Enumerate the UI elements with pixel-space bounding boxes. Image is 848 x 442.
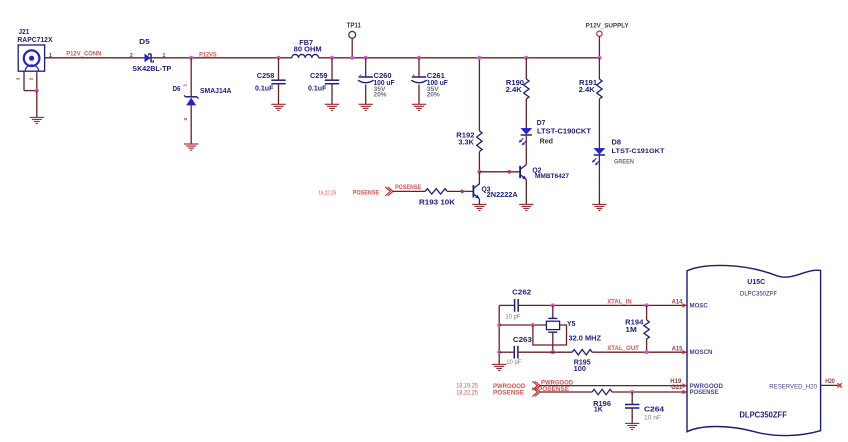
svg-text:POSENSE: POSENSE: [538, 386, 569, 393]
svg-text:2.4K: 2.4K: [506, 85, 523, 94]
svg-text:1M: 1M: [625, 325, 636, 334]
junction crystal case: [531, 323, 535, 327]
junction C264: [630, 390, 634, 394]
svg-text:A14: A14: [672, 298, 683, 305]
ground C261: [412, 104, 426, 110]
off-page connector POSENSE2: [532, 388, 540, 397]
svg-text:MOSCN: MOSCN: [690, 349, 713, 356]
svg-text:C263: C263: [513, 335, 532, 344]
transistor Q2: [519, 166, 521, 178]
svg-text:16,22,25: 16,22,25: [318, 190, 336, 196]
wire gnd rail left: [498, 305, 500, 364]
junction C260: [364, 56, 368, 60]
wire R191 to D8: [598, 99, 600, 148]
wire to D6: [190, 58, 192, 96]
junction C258: [276, 56, 280, 60]
junction crystal top: [551, 303, 555, 307]
arrow pin A14: [682, 303, 687, 308]
svg-text:80 OHM: 80 OHM: [294, 44, 322, 53]
wire J21 to ground: [36, 91, 38, 118]
svg-text:20%: 20%: [374, 92, 387, 99]
svg-text:20%: 20%: [427, 92, 440, 99]
svg-text:2: 2: [130, 53, 133, 59]
ground C258: [271, 104, 285, 110]
off-page connector POSENSE: [385, 187, 393, 196]
svg-text:+: +: [359, 74, 362, 80]
off-page refs PWRGOOD POSENSE: [456, 383, 526, 396]
wire C260 to ground: [365, 85, 367, 105]
junction R192 top: [477, 56, 481, 60]
wire C263 left: [499, 351, 514, 353]
svg-text:P12V_CONN: P12V_CONN: [66, 51, 102, 58]
resistor R195: [572, 350, 592, 355]
arrow Q2 base: [508, 170, 513, 175]
R190 label: [506, 78, 524, 94]
wire P12V_SUPPLY to rail: [598, 36, 600, 57]
wire J21 pin3 stub: [23, 71, 25, 90]
svg-text:XTAL_IN: XTAL_IN: [607, 299, 632, 306]
junction R194 top: [645, 303, 649, 307]
svg-text:C261: C261: [427, 73, 445, 80]
wire C264 to ground: [631, 408, 633, 423]
svg-text:MOSC: MOSC: [690, 303, 709, 310]
junction C261: [417, 56, 421, 60]
wire XTAL_OUT left: [518, 351, 572, 353]
capacitor C263: [513, 346, 515, 359]
C259 label: [308, 71, 328, 92]
Q2 label: [532, 165, 569, 180]
svg-text:TP11: TP11: [347, 20, 361, 29]
svg-text:0.1uF: 0.1uF: [255, 83, 274, 92]
svg-text:Red: Red: [540, 139, 553, 146]
wire to C261: [418, 58, 420, 77]
R194 label: [625, 318, 644, 334]
svg-text:C264: C264: [644, 404, 665, 413]
wire C261 to ground: [418, 85, 420, 105]
wire XTAL_IN: [518, 304, 687, 306]
wire PWRGOOD: [540, 385, 687, 387]
wire J21 pin2 stub: [36, 71, 38, 90]
ground D6: [184, 144, 198, 150]
junction P12VS: [189, 56, 193, 60]
FB7 label: [294, 38, 322, 54]
svg-text:1: 1: [183, 84, 188, 87]
wire to C260: [365, 58, 367, 77]
R195 label: [574, 358, 591, 373]
svg-text:Y5: Y5: [567, 319, 576, 328]
junction gnd rail lower: [497, 350, 501, 354]
svg-text:POSENSE: POSENSE: [493, 389, 524, 396]
svg-text:D5: D5: [139, 37, 150, 46]
C263 label: [506, 335, 532, 366]
svg-text:1K: 1K: [594, 404, 603, 413]
wire Q3 emitter to ground: [478, 199, 480, 205]
wire C258 to ground: [278, 84, 280, 105]
arrow pin G21: [682, 390, 687, 395]
wire crystal case left: [499, 324, 546, 326]
resistor R191: [597, 79, 602, 99]
svg-text:C259: C259: [310, 71, 328, 80]
U15C label: [740, 277, 777, 297]
svg-text:POSENSE: POSENSE: [395, 184, 421, 191]
ground D8: [592, 204, 606, 210]
svg-text:SMAJ14A: SMAJ14A: [200, 86, 232, 95]
C261 label: [427, 73, 449, 98]
D6 label: [173, 84, 233, 95]
svg-text:18,19,25: 18,19,25: [456, 384, 478, 390]
resistor R192: [477, 131, 482, 152]
D5 label: [132, 37, 171, 73]
svg-text:2: 2: [183, 118, 188, 121]
svg-text:3.3K: 3.3K: [458, 137, 474, 146]
svg-text:C258: C258: [257, 71, 275, 80]
wire P12V_CONN: [45, 57, 145, 59]
led D7: [521, 128, 531, 134]
off-page connector PWRGOOD: [532, 381, 540, 390]
Y5 label: [567, 319, 602, 343]
crystal Y5: [546, 318, 559, 332]
wire R194 top: [646, 305, 648, 320]
wire D6 to ground: [190, 105, 192, 144]
arrow Q3 base: [461, 189, 466, 194]
wire Q2 emitter to ground: [525, 180, 527, 205]
svg-text:U15C: U15C: [747, 277, 765, 286]
svg-text:LTST-C191GKT: LTST-C191GKT: [612, 148, 665, 155]
off-page refs POSENSE: [318, 189, 379, 196]
junction Q3 collector: [477, 170, 481, 174]
ground crystal: [492, 364, 506, 370]
R191 label: [579, 78, 598, 94]
wire to C259: [331, 58, 333, 80]
ground J21: [30, 117, 44, 123]
wire J21 pins join: [24, 90, 37, 92]
wire to R190: [525, 58, 527, 79]
svg-text:SK42BL-TP: SK42BL-TP: [132, 64, 171, 73]
svg-text:10 nF: 10 nF: [644, 414, 661, 421]
wire R190 to D7: [525, 99, 527, 128]
arrow pin H19: [682, 383, 687, 388]
D8 label: [612, 138, 665, 166]
svg-text:18,22,25: 18,22,25: [456, 390, 478, 396]
wire C259 to ground: [331, 84, 333, 105]
wire XTAL_OUT right: [592, 351, 687, 353]
C258 label: [255, 71, 274, 92]
R192 label: [456, 131, 474, 147]
junction gnd rail upper: [497, 323, 501, 327]
resistor R193: [425, 189, 447, 194]
junction C259: [330, 56, 334, 60]
svg-text:100: 100: [574, 364, 586, 373]
wire crystal bottom stub: [552, 332, 554, 352]
D7 label: [537, 118, 592, 146]
svg-text:0.1uF: 0.1uF: [308, 83, 327, 92]
wire pin H20 stub: [821, 384, 838, 386]
C260 label: [374, 73, 396, 98]
ground C260: [359, 104, 373, 110]
wire R196 to pin G21: [612, 391, 687, 393]
svg-text:2: 2: [29, 77, 34, 80]
svg-text:G21: G21: [671, 384, 683, 391]
junction R194 bottom: [645, 350, 649, 354]
svg-text:10 pF: 10 pF: [505, 314, 520, 321]
svg-text:R193 10K: R193 10K: [419, 197, 456, 206]
capacitor C261: [412, 76, 426, 78]
ferrite bead FB7: [292, 54, 319, 57]
capacitor C264: [625, 404, 639, 406]
capacitor C258: [271, 79, 285, 81]
wire junction down to Q3: [478, 172, 480, 185]
wire D8 to ground: [598, 155, 600, 204]
wire FB7 to corner: [319, 57, 600, 59]
power terminal P12V_SUPPLY: [597, 31, 602, 36]
ground C259: [325, 104, 339, 110]
junction P12V_SUPPLY: [597, 56, 601, 60]
diode D5: [145, 54, 154, 63]
resistor R190: [524, 79, 529, 99]
wire D5 to FB7: [151, 57, 291, 59]
ground C264: [625, 423, 639, 429]
wire rail to R191: [598, 58, 600, 79]
svg-text:C262: C262: [512, 288, 531, 297]
arrow pin A15: [682, 350, 687, 355]
wire to C258: [278, 58, 280, 80]
capacitor C262: [514, 299, 516, 312]
wire POSENSE to R196: [540, 391, 592, 393]
ground Q3: [472, 204, 486, 210]
transistor Q3: [472, 185, 474, 197]
svg-text:32.0 MHZ: 32.0 MHZ: [569, 334, 602, 343]
op-amp U15C outline: [687, 265, 821, 435]
Q3 label: [482, 185, 518, 200]
C264 label: [644, 404, 665, 421]
svg-text:P12V_SUPPLY: P12V_SUPPLY: [586, 22, 630, 29]
svg-text:POSENSE: POSENSE: [690, 389, 720, 396]
wire POSENSE to R193: [393, 190, 425, 192]
svg-text:A15: A15: [672, 346, 683, 353]
junction R190 top: [524, 56, 528, 60]
R196 label: [593, 399, 611, 414]
J21 label: [17, 27, 52, 44]
svg-text:P12VS: P12VS: [199, 52, 217, 59]
svg-text:XTAL_OUT: XTAL_OUT: [607, 345, 639, 352]
junction TP11: [350, 56, 354, 60]
wire R193 to Q3 base: [447, 190, 473, 192]
tvs diode D6: [184, 95, 198, 105]
svg-text:3: 3: [15, 77, 20, 80]
wire to C264: [631, 392, 633, 405]
svg-text:D7: D7: [537, 118, 546, 127]
svg-text:+: +: [412, 74, 415, 80]
svg-text:2.4K: 2.4K: [579, 85, 596, 94]
capacitor C260: [359, 76, 373, 78]
svg-text:LTST-C190CKT: LTST-C190CKT: [537, 129, 592, 136]
connector J21: [18, 45, 44, 71]
no-connect X H20: [838, 383, 842, 387]
wire crystal top stub: [552, 305, 554, 318]
svg-text:H20: H20: [825, 378, 835, 385]
led D8: [594, 148, 604, 154]
wire junction to Q2 base: [479, 171, 519, 173]
ground Q2: [519, 204, 533, 210]
test point TP11: [349, 31, 356, 38]
svg-text:C260: C260: [374, 73, 392, 80]
svg-text:RESERVED_H20: RESERVED_H20: [769, 383, 817, 390]
wire crystal case loop: [533, 325, 567, 345]
junction J21 pins: [35, 89, 39, 93]
resistor R196: [592, 389, 612, 394]
svg-text:D8: D8: [612, 138, 622, 147]
svg-text:DLPC350ZFF: DLPC350ZFF: [739, 410, 787, 419]
junction crystal bottom: [551, 350, 555, 354]
wire R194 bottom: [646, 339, 648, 352]
C262 label: [505, 288, 531, 321]
svg-text:D6: D6: [173, 84, 181, 93]
svg-text:10 pF: 10 pF: [506, 359, 521, 366]
wire R192 to junction: [478, 152, 480, 172]
wire D7 to Q2 collector: [525, 135, 527, 164]
svg-text:GREEN: GREEN: [614, 159, 634, 165]
svg-text:MMBT6427: MMBT6427: [535, 173, 569, 180]
svg-text:RAPC712X: RAPC712X: [17, 35, 52, 44]
svg-text:DLPC350ZFF: DLPC350ZFF: [740, 291, 777, 298]
svg-text:POSENSE: POSENSE: [353, 189, 379, 196]
svg-text:2N2222A: 2N2222A: [487, 192, 518, 199]
wire to R192: [478, 58, 480, 131]
wire C262 left: [499, 304, 514, 306]
capacitor C259: [325, 79, 339, 81]
wire TP11: [351, 38, 353, 58]
resistor R194: [644, 320, 649, 339]
